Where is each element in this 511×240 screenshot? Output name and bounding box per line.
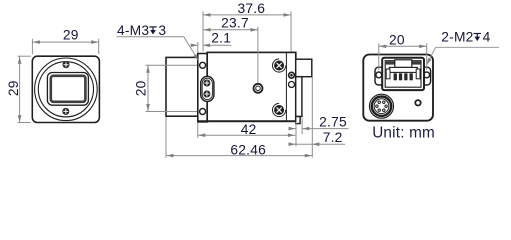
rear view RJ45 top-left block — [386, 61, 395, 64]
svg-text:2.75: 2.75 — [319, 115, 347, 130]
side view boss foot — [296, 117, 300, 124]
dim 29 top extension lines — [31, 39, 33, 54]
dim 23.7 line — [203, 29, 258, 31]
rear view RJ45 carrier band — [389, 67, 417, 72]
side view phillips screw top — [273, 59, 286, 72]
dim 20 rear line — [379, 45, 427, 47]
rear view RJ45 side tab right — [416, 69, 420, 79]
front view flange rounded plate — [47, 73, 88, 106]
label 4-M3 leader shoulder — [117, 36, 184, 38]
dim 7.2 arrows outside — [289, 143, 296, 145]
side view main body — [207, 52, 296, 121]
svg-text:62.46: 62.46 — [230, 142, 266, 157]
rear view RJ45 top-right block — [412, 61, 421, 64]
rear view aux hole — [415, 100, 420, 105]
dim 29 left extension lines — [18, 55, 31, 57]
svg-text:20: 20 — [389, 32, 405, 47]
label 2-M2 leader shoulder — [436, 46, 499, 48]
side view stadium boss — [201, 76, 214, 101]
front view camera body outline — [32, 56, 99, 122]
dim 2.75 extension line — [301, 118, 303, 134]
svg-text:37.6: 37.6 — [237, 1, 265, 16]
dim 2.1 line arrows outside — [191, 44, 198, 46]
svg-text:29: 29 — [6, 80, 21, 96]
dim 23.7 extension line — [257, 27, 259, 84]
front view top screw — [63, 61, 70, 68]
rear view M2 hole right — [424, 72, 430, 78]
label 4-M3 depth symbol — [149, 27, 156, 32]
side view body bottom edge thick — [198, 120, 296, 122]
svg-text:2.1: 2.1 — [211, 31, 231, 46]
label 2-M2 leader — [428, 47, 436, 62]
side view flange screw bottom M3 — [200, 109, 206, 115]
dim 20 side line — [147, 65, 149, 111]
svg-text:2-M2: 2-M2 — [441, 30, 473, 45]
rear view RJ45 shield — [382, 58, 424, 90]
rear view power connector 6-pin — [370, 94, 394, 118]
dim 62.46 line — [166, 155, 312, 157]
rear view RJ45 pins — [394, 73, 397, 80]
side view power connector boss — [296, 77, 302, 117]
svg-text:3: 3 — [158, 23, 166, 38]
side view flange screw top M3 — [200, 62, 206, 68]
label 4-M3 leader — [184, 37, 197, 59]
svg-text:7.2: 7.2 — [323, 130, 343, 145]
svg-text:4: 4 — [483, 30, 491, 45]
side view LED hole upper — [289, 72, 295, 78]
side view tripod hole ring — [254, 84, 263, 93]
side view stadium screw lower — [203, 91, 210, 98]
side view LED hole lower — [289, 82, 295, 88]
side view lens barrel — [166, 57, 198, 116]
svg-text:23.7: 23.7 — [221, 16, 249, 31]
front view sensor window — [51, 76, 86, 102]
dim 37.6 extension lines — [202, 12, 204, 52]
svg-text:Unit: mm: Unit: mm — [372, 125, 435, 142]
rear view RJ45 side tab left — [386, 69, 390, 79]
rear view RJ45 latch — [395, 60, 412, 68]
front view bottom screw — [62, 108, 69, 115]
dim 42 extension line left — [197, 122, 199, 137]
side view RJ45 profile box — [296, 59, 312, 76]
rear view body outline — [363, 55, 433, 121]
dim 2.1 extension line — [197, 42, 199, 53]
dim 20 extension lines through barrel — [146, 64, 200, 66]
label 2-M2 depth symbol — [474, 34, 481, 39]
rear view RJ45 ears plate — [375, 67, 431, 85]
dim 2.75 arrows outside — [289, 128, 296, 130]
dim 37.6 line — [203, 14, 291, 16]
svg-text:42: 42 — [241, 122, 257, 137]
dim 62.46 extension line left — [165, 117, 167, 158]
dim 20 rear extension lines — [378, 44, 380, 70]
svg-text:20: 20 — [134, 80, 149, 96]
rear view RJ45 inner wall — [385, 61, 421, 87]
rear view M2 hole left — [376, 72, 382, 78]
front view lens mount inner circle — [38, 62, 93, 117]
svg-text:29: 29 — [63, 27, 79, 42]
dim 7.2 extension line right — [311, 77, 313, 158]
dim 29 top line — [32, 41, 98, 43]
dim 42 line — [198, 134, 296, 136]
side view phillips screw bottom — [273, 103, 286, 116]
side view front flange strip — [198, 54, 207, 122]
side view stadium screw upper — [203, 80, 210, 87]
dim 29 left line — [19, 56, 21, 123]
side view rear seam line — [285, 53, 287, 121]
front view lens mount outer circle — [35, 58, 98, 121]
dim 42 extension line right body rear — [295, 122, 297, 147]
svg-text:4-M3: 4-M3 — [117, 23, 149, 38]
